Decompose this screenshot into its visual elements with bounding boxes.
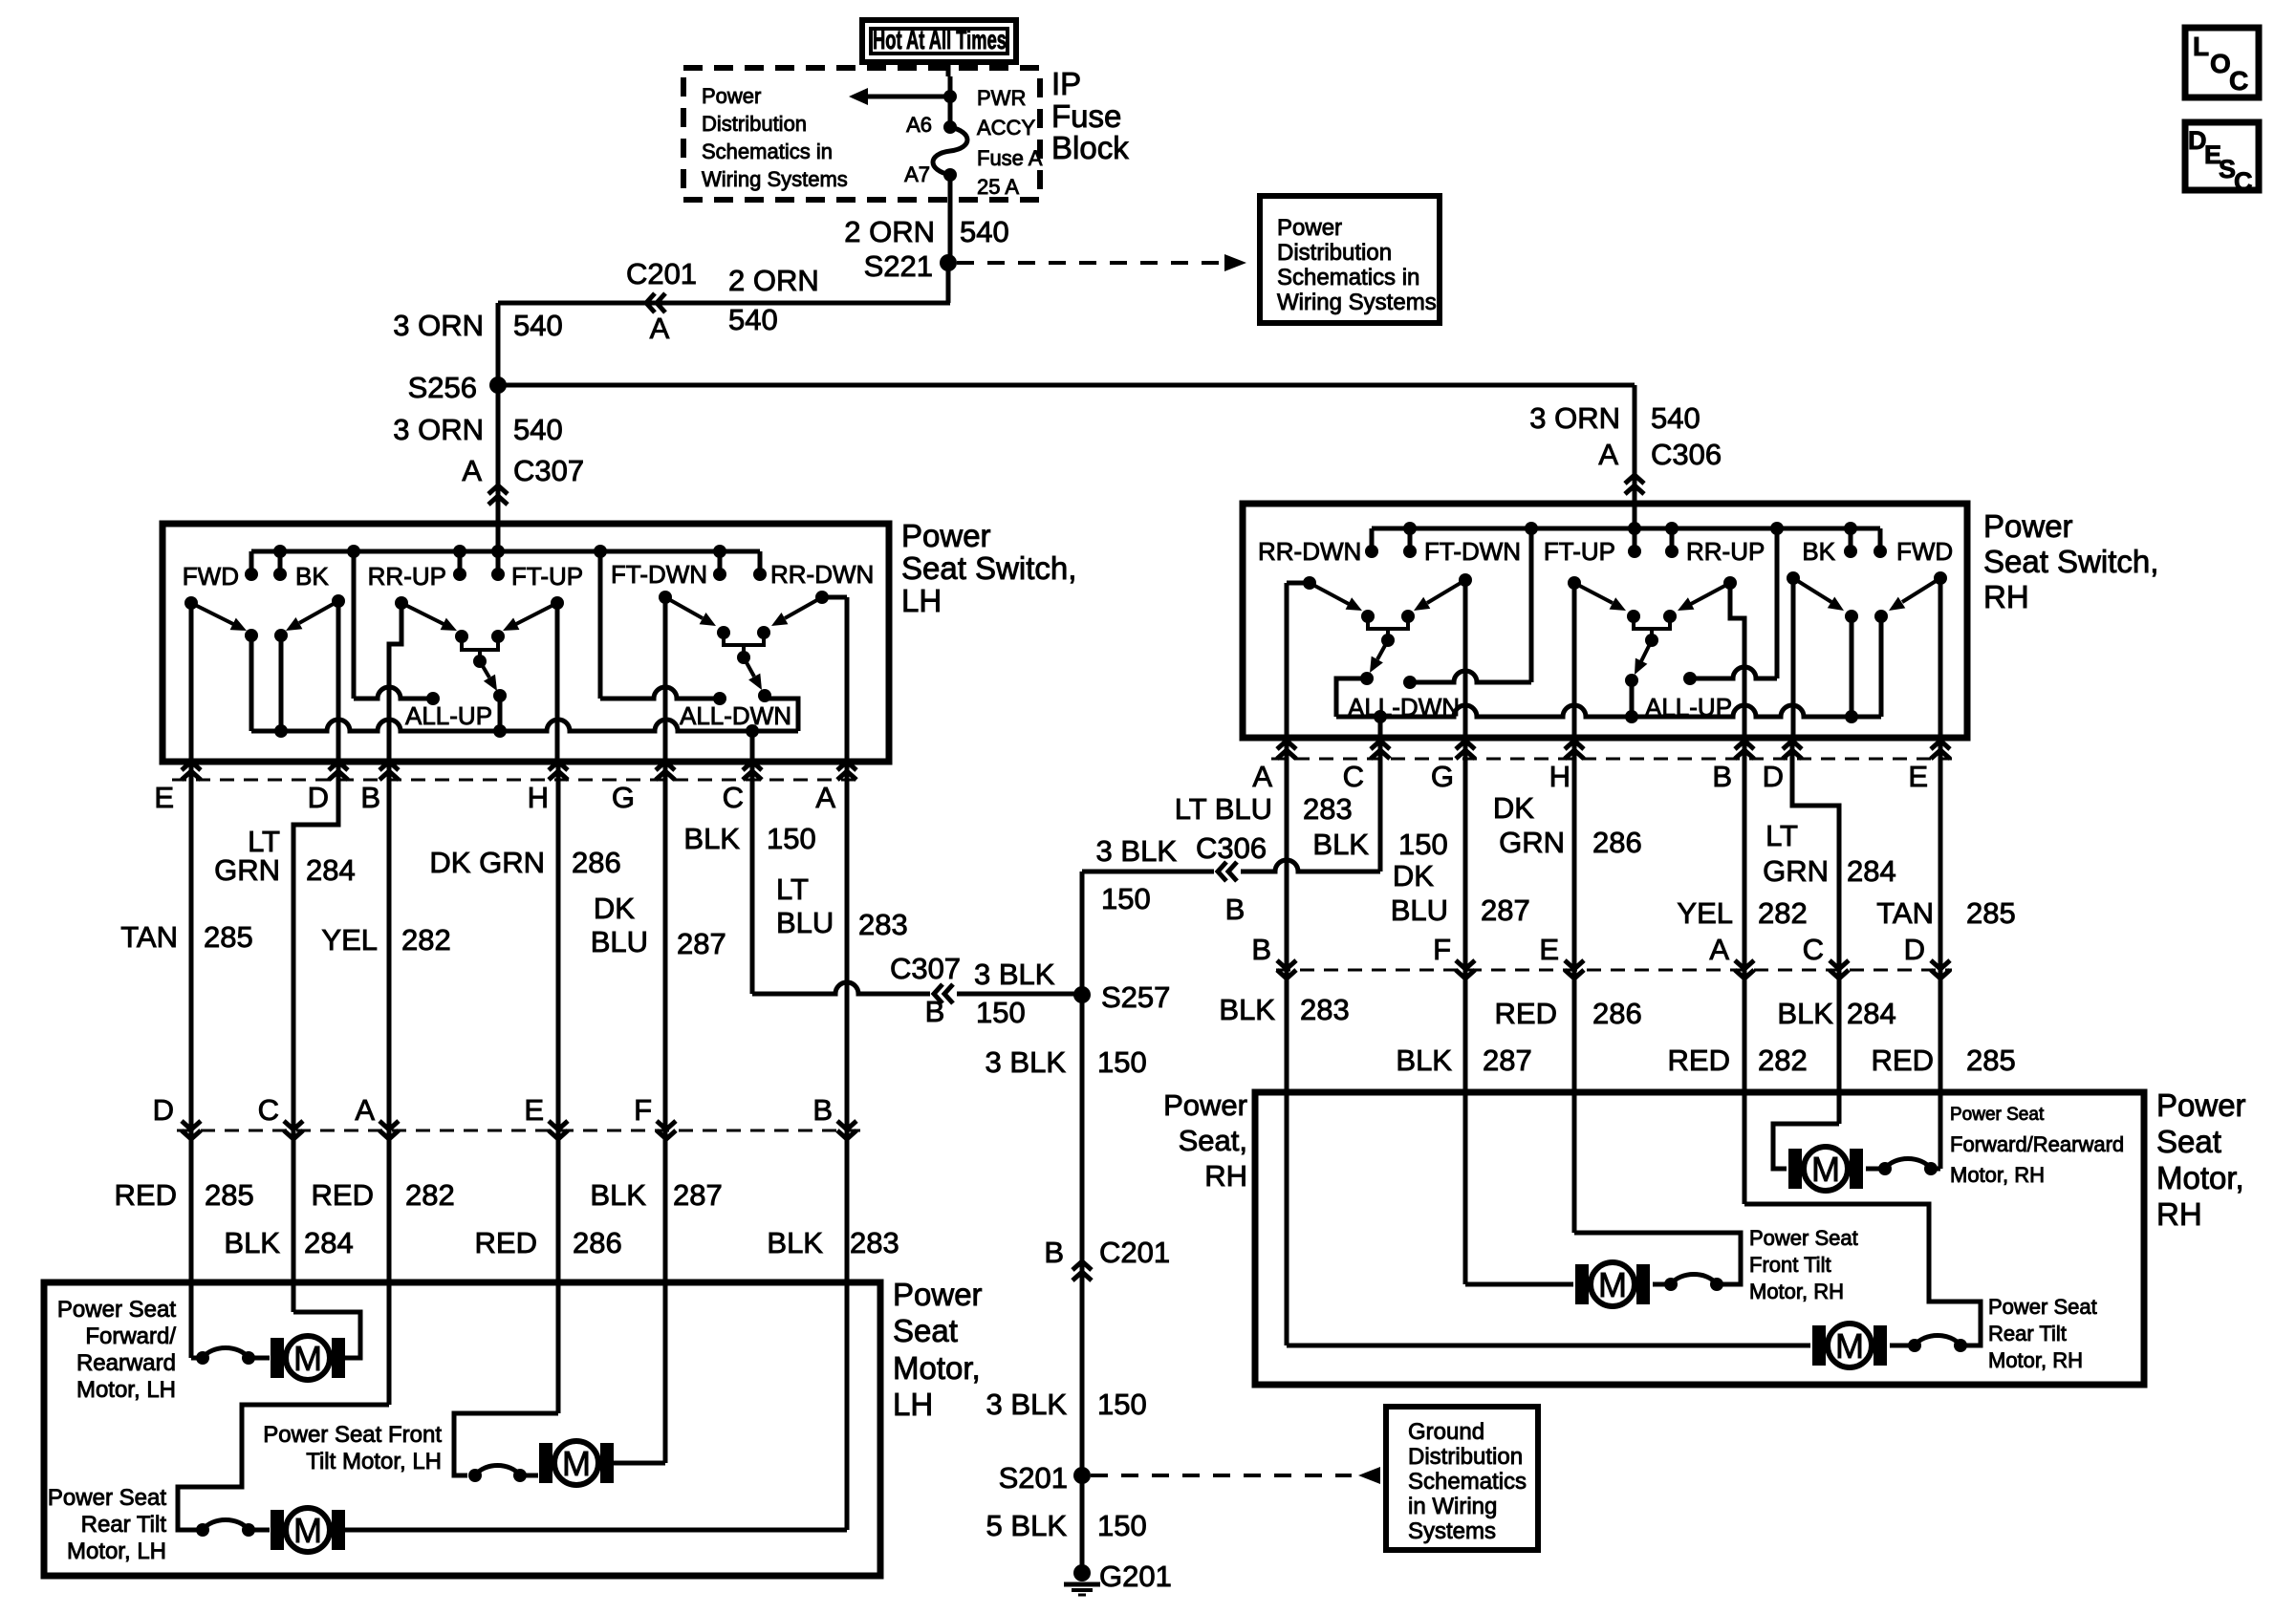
wire label BLK 287 [590,1178,722,1212]
svg-text:3 BLK: 3 BLK [1096,834,1178,868]
RH FT-DWN switch pole [1459,573,1472,738]
motor M6 brush contact [1908,1336,1967,1353]
svg-text:Power Seat: Power Seat [1950,1105,2045,1125]
wire C306 to RH switch pin C [1241,738,1380,872]
svg-text:540: 540 [513,413,563,446]
svg-text:BLU: BLU [591,925,648,958]
switch position label BK [295,562,329,591]
component box: Power Seat Switch RH [1243,504,1967,738]
RH motor connector chevrons at x=1346 [1277,960,1296,979]
svg-text:RED: RED [1872,1044,1934,1077]
svg-text:Wiring Systems: Wiring Systems [702,167,848,191]
svg-text:284: 284 [1847,854,1896,888]
svg-text:Power: Power [2156,1087,2246,1123]
power label box: Hot At All Times [862,20,1016,62]
svg-text:B: B [1251,933,1271,966]
LH ALL-DWN feed wire from bus [600,551,720,699]
wire RH pin H down (DK GRN 286) [1572,738,1577,1233]
svg-text:L: L [2193,32,2209,61]
wire M2 contact to motor [520,1474,538,1478]
RH RR-DWN switch arm arrow [1310,583,1362,611]
RH all-up contact bracket [1627,610,1677,638]
svg-text:Schematics: Schematics [1408,1469,1527,1495]
svg-text:Ground: Ground [1408,1419,1484,1445]
wire M4 contact to motor [1866,1167,1885,1172]
wire RH pin B down (YEL 282) [1743,738,1747,1204]
wire pin G down (DK BLU 287) [663,762,668,1463]
wire label 3 BLK 150 (C201-S201) [986,1388,1147,1421]
LH bus junction dots [273,545,726,558]
RH FT-UP switch pole [1568,576,1581,738]
label ALL-UP [405,701,492,730]
svg-text:150: 150 [1097,1388,1147,1421]
svg-text:C307: C307 [513,454,584,487]
motor M5 brush contact [1664,1275,1723,1292]
RH switch connector chevrons at x=1346 [1277,741,1296,759]
RH ALL-UP feed wire from bus [1690,528,1777,678]
svg-text:BLK: BLK [1219,993,1275,1026]
svg-text:Motor,: Motor, [893,1350,981,1386]
pin letter C [723,781,744,814]
RH motor connector chevrons at x=1825 [1735,960,1754,979]
LH rail junction dots [274,724,759,738]
svg-text:283: 283 [1303,792,1353,826]
svg-text:Power Seat: Power Seat [57,1297,176,1323]
svg-text:B: B [1225,893,1245,926]
LH BK switch pole [332,594,345,762]
svg-text:H: H [1549,760,1570,793]
svg-text:285: 285 [1966,1044,2016,1077]
pin letter C (RH) [1343,760,1364,793]
svg-text:RR-DWN: RR-DWN [770,560,874,589]
svg-text:287: 287 [1481,893,1530,927]
svg-text:Tilt Motor, LH: Tilt Motor, LH [306,1449,442,1474]
reference box: Power Distribution Schematics in Wiring Systems [1260,196,1440,323]
pin letter G [612,781,635,814]
LH all-up contact bracket [455,630,505,660]
wire from C201 corner down to S256 [496,303,501,385]
LH FWD fixed contact [245,629,258,731]
wire M5 left side from pin G/F [1465,1282,1573,1287]
wire M6 left side from pin A/B [1287,1344,1810,1348]
wire label 3 BLK 150 (S257-C306) [1096,834,1178,915]
component box: Power Seat Motor RH [1255,1092,2144,1385]
svg-text:D: D [1763,760,1784,793]
LH ALL-DWN arm arrow [744,657,762,690]
pin letter A (RH) [1252,760,1272,793]
wire from Hot At All Times box down to IP fuse block [946,62,951,76]
svg-text:Rear Tilt: Rear Tilt [81,1512,167,1538]
svg-text:BLK: BLK [1312,828,1369,861]
svg-text:286: 286 [1592,997,1642,1030]
svg-text:A: A [462,454,482,487]
pin letter C (motor row) [258,1093,279,1127]
LH FT-DWN switch pole [659,591,672,762]
svg-text:A6: A6 [906,113,932,137]
svg-text:B: B [1712,760,1732,793]
svg-text:Seat Switch,: Seat Switch, [901,550,1076,586]
LH FT-UP switch pole [551,596,564,762]
svg-text:LT BLU: LT BLU [1175,792,1272,826]
svg-text:Systems: Systems [1408,1518,1496,1544]
svg-text:287: 287 [677,927,726,960]
svg-text:DK: DK [1493,791,1534,825]
svg-text:3 ORN: 3 ORN [393,413,484,446]
svg-text:25 A: 25 A [977,175,1019,199]
LH ALL-UP arm end [493,689,507,731]
IP Fuse Block dashed box [683,68,1040,200]
RH ALL-DWN feed wire from bus [1410,528,1531,682]
svg-text:RH: RH [1983,579,2029,614]
wire M2 feed from pin H/E [454,1413,558,1475]
connector C201 (B) chevrons [1072,1261,1092,1280]
svg-text:Motor, LH: Motor, LH [76,1377,176,1403]
RH FT-DWN switch arm arrow [1414,580,1465,611]
component label: Power Seat Motor, RH (right) [2156,1087,2246,1232]
wire label RED 282 (RH) [1668,1044,1808,1077]
svg-text:Block: Block [1051,130,1129,165]
pin letter E (motor row) [524,1093,544,1127]
wire label BLK 150 [683,822,815,855]
svg-text:F: F [634,1093,652,1127]
svg-text:FT-UP: FT-UP [1544,537,1615,566]
svg-text:YEL: YEL [1677,896,1733,930]
svg-text:Schematics in: Schematics in [702,140,833,163]
RH bus terminal stubs [1372,528,1880,551]
motor M5 labels [1749,1226,1858,1303]
RH RR-UP switch pole [1723,576,1744,738]
pin letter A (RH motor row) [1709,933,1729,966]
svg-text:BLK: BLK [1777,997,1833,1030]
wire from S221 down and left to C201 [498,301,950,306]
pin letter H [528,781,549,814]
connector C306 labels [1196,831,1267,926]
fuse value label PWR ACCY Fuse A 25 A [977,86,1043,199]
connector C307 pin A label [462,454,584,487]
svg-text:Distribution: Distribution [1408,1444,1523,1470]
RH bus terminal dots [1365,545,1887,558]
LH RR-UP switch arm arrow [401,603,457,631]
svg-text:150: 150 [1097,1045,1147,1079]
svg-text:ALL-UP: ALL-UP [405,701,492,730]
wire RH pin G down (DK BLU 287) [1463,738,1468,1284]
reference box LOC [2185,28,2259,97]
svg-text:284: 284 [304,1226,354,1259]
pin letter A [815,781,835,814]
svg-text:284: 284 [1847,997,1896,1030]
LH RR-DWN switch arm arrow [771,597,822,626]
svg-text:B: B [925,995,945,1028]
svg-text:Hot At All Times: Hot At All Times [873,25,1007,54]
component label: Power Seat Switch, LH [901,518,1076,618]
wire label YEL 282 (RH) [1677,896,1807,930]
connector C306 pin A label [1598,438,1722,471]
svg-text:2 ORN: 2 ORN [728,264,819,297]
wire pin D jog down (LT GRN 284) [293,762,338,1312]
svg-text:A: A [1709,933,1729,966]
svg-text:G: G [612,781,635,814]
LH switch connector chevrons at x=407 [379,762,399,780]
wire M4 contact to pin D [1931,1167,1940,1172]
pin letter B [360,781,380,814]
svg-text:BLK: BLK [767,1226,823,1259]
svg-text:Seat: Seat [2156,1124,2221,1159]
motor M5: Power Seat Front Tilt Motor RH [1575,1262,1650,1306]
svg-text:3 ORN: 3 ORN [393,309,484,342]
label ALL-UP (RH) [1645,693,1732,721]
svg-text:Distribution: Distribution [702,112,807,136]
wire label DK GRN 286 (RH) [1493,791,1642,859]
wire label TAN 285 [120,920,252,954]
arrow to power distribution schematics (left) [849,88,950,105]
wire label 2 ORN 540 [844,215,1008,248]
RH switch connector chevrons at x=1647 [1565,741,1584,759]
component label: Power Seat Motor, LH [893,1277,983,1422]
wire M2 right side from pin G/F [614,1461,665,1466]
component label: Power Seat Switch, RH [1983,508,2158,614]
svg-text:286: 286 [1592,826,1642,859]
wire C307 to S257 [957,992,1082,997]
wire label BLK 283 [767,1226,899,1259]
svg-text:BLK: BLK [1396,1044,1452,1077]
reference box: Ground Distribution Schematics in Wiring Systems [1386,1407,1538,1550]
node S221 splice [864,249,957,283]
wire M3 right side to pin A/B [345,1528,847,1533]
svg-text:150: 150 [1097,1509,1147,1542]
RH motor connector chevrons at x=1647 [1565,960,1584,979]
wire fuse top lead [948,76,953,127]
LH ALL-DWN pivot [737,651,750,664]
pin letter D [308,781,329,814]
svg-text:3 BLK: 3 BLK [986,1388,1068,1421]
node: fuse terminal A7 [943,168,957,182]
pin letter D (RH motor row) [1904,933,1925,966]
svg-text:A7: A7 [904,162,930,186]
svg-text:G: G [1431,760,1454,793]
wire M3 feed from pin B/A [178,1405,389,1530]
pin letter A (motor row) [355,1093,375,1127]
LH all-dwn contact bracket [717,626,770,656]
wire label DK BLU 287 (RH) [1391,859,1530,927]
wire label 3 ORN 540 (below S256) [393,413,562,446]
LH RR-DWN switch pole [815,591,847,762]
svg-text:RR-DWN: RR-DWN [1258,537,1361,566]
wire M4 left side from pin C [1773,1124,1839,1169]
svg-text:RR-UP: RR-UP [1686,537,1765,566]
LH switch connector chevrons at x=354 [329,762,348,780]
wire label LT BLU 283 [776,872,908,941]
wire S257 up to C306 [1082,872,1214,995]
pin letter B (RH) [1712,760,1732,793]
svg-text:A: A [1598,438,1618,471]
RH FT-UP switch arm arrow [1574,583,1626,611]
component label: IP Fuse Block [1051,66,1129,165]
svg-text:RH: RH [1204,1159,1247,1193]
svg-text:Rear Tilt: Rear Tilt [1988,1322,2067,1345]
svg-text:F: F [1433,933,1451,966]
svg-text:RED: RED [475,1226,537,1259]
LH switch connector chevrons at x=696 [656,762,675,780]
node: junction dot on fuse feed [943,90,957,103]
LH BK fixed contact [274,629,288,731]
RH FWD switch pole [1934,571,1947,738]
connector C201 labels [1044,1236,1170,1269]
svg-text:Fuse: Fuse [1051,98,1121,134]
LH rail to pin C wire [750,731,755,762]
pin letter D (RH) [1763,760,1784,793]
LH motor connector chevrons at x=697 [657,1121,676,1139]
node S257 splice [1073,980,1170,1014]
wire label 3 ORN 540 (right branch) [1529,401,1700,435]
LH BK switch arm arrow [286,601,338,631]
svg-text:S257: S257 [1101,980,1170,1014]
svg-text:Power: Power [1277,215,1342,241]
LH ALL-UP pivot [473,655,487,668]
wire from S256 right to RH seat switch feed [498,383,1635,388]
motor M4 brush contact [1878,1159,1938,1176]
wire M6 feed from pin B/A [1744,1204,1981,1345]
svg-text:M: M [1811,1150,1840,1189]
RH ALL-UP arm end [1625,674,1638,717]
svg-text:RR-UP: RR-UP [368,562,446,591]
svg-text:BLK: BLK [683,822,740,855]
svg-text:540: 540 [728,303,778,336]
switch position label FT-DWN (RH) [1424,537,1521,566]
svg-text:150: 150 [767,822,816,855]
svg-text:283: 283 [858,908,908,941]
LH ALL-UP arm arrow [480,661,497,691]
svg-text:Motor, RH: Motor, RH [1950,1163,2045,1187]
svg-text:BLK: BLK [590,1178,646,1212]
svg-text:RED: RED [1668,1044,1730,1077]
svg-text:in Wiring: in Wiring [1408,1494,1497,1519]
svg-text:284: 284 [306,853,356,887]
svg-text:Power Seat Front: Power Seat Front [263,1422,442,1448]
svg-text:2 ORN: 2 ORN [844,215,935,248]
svg-text:Forward/Rearward: Forward/Rearward [1950,1132,2124,1156]
svg-text:O: O [2210,49,2231,78]
wire label BLK 284 [224,1226,353,1259]
svg-text:150: 150 [1101,882,1151,915]
svg-text:C201: C201 [1099,1236,1170,1269]
svg-text:C307: C307 [890,952,961,985]
svg-text:282: 282 [405,1178,455,1212]
svg-text:285: 285 [204,920,253,954]
wire label BLK 287 (RH) [1396,1044,1531,1077]
motor M6 labels [1988,1295,2097,1372]
svg-text:PWR: PWR [977,86,1026,110]
RH motor connector dashed row [1276,969,1952,972]
svg-text:DK: DK [1393,859,1434,893]
wire pin B down (YEL 282) [387,762,392,1405]
LH FWD switch pole [184,596,198,762]
switch position label FWD [183,562,239,591]
svg-text:DK GRN: DK GRN [429,846,545,879]
svg-text:B: B [812,1093,833,1127]
wire fuse output down to S221 [948,175,950,303]
wire from S256 down to LH seat switch [496,385,501,551]
node S256 splice [408,371,507,404]
svg-text:286: 286 [572,846,621,879]
svg-text:ALL-DWN: ALL-DWN [680,701,791,730]
LH motor connector dashed row [177,1130,860,1132]
connector C201 (A) on orange feed [626,257,697,345]
svg-text:Motor, RH: Motor, RH [1988,1348,2083,1372]
dashed wire S201 to ground distribution box [1091,1467,1380,1484]
wire RH pin D jog down (LT GRN 284) [1792,738,1839,1124]
svg-text:RED: RED [312,1178,374,1212]
svg-text:E: E [1539,933,1559,966]
svg-text:S221: S221 [864,249,933,283]
wire label LT BLU 283 (RH) [1175,792,1353,826]
svg-text:Motor,: Motor, [2156,1160,2244,1195]
switch position label FT-DWN [611,560,707,589]
svg-text:C306: C306 [1651,438,1722,471]
connector C306 chevrons (top) [1625,475,1644,494]
svg-text:285: 285 [205,1178,254,1212]
RH switch connector chevrons at x=1875 [1783,741,1802,759]
svg-text:287: 287 [1483,1044,1532,1077]
wire RH pin A down (LT BLU 283) [1285,738,1289,1345]
wire M5 feed from pin H/E [1574,1233,1741,1284]
svg-text:BLU: BLU [1391,893,1448,927]
svg-text:C306: C306 [1196,831,1267,865]
fuse PWR ACCY Fuse A 25A symbol [933,127,967,175]
svg-text:E: E [1908,760,1928,793]
RH switch common rail [1336,705,1881,717]
svg-text:282: 282 [1758,1044,1808,1077]
wire from S256 down to RH seat switch [1633,385,1637,529]
svg-text:D: D [1904,933,1925,966]
svg-text:C: C [1343,760,1364,793]
svg-text:A: A [1252,760,1272,793]
node: fuse terminal A6 [943,120,957,134]
pin letter E (RH) [1908,760,1928,793]
motor M2 brush contact [468,1466,527,1483]
pin letter B (motor row) [812,1093,833,1127]
svg-text:C: C [2229,66,2248,96]
RH rail to pin C wire [1378,717,1383,738]
svg-text:G201: G201 [1099,1560,1172,1593]
connector C307 chevrons [488,485,508,505]
RH ALL-DWN pivot [1381,634,1395,647]
RH FWD fixed contact [1874,610,1888,717]
svg-text:FWD: FWD [1896,537,1953,566]
wire label BLK 284 (RH) [1777,997,1895,1030]
wire RH pin E down (TAN 285) [1939,738,1943,1169]
LH switch common rail [251,720,798,731]
switch position label FT-UP (RH) [1544,537,1615,566]
wire label 2 ORN 540 (after C201) [728,264,819,336]
motor M3 brush contact [196,1520,255,1538]
svg-text:S201: S201 [999,1461,1068,1495]
svg-text:Power: Power [893,1277,983,1312]
svg-text:Power Seat: Power Seat [1988,1295,2097,1319]
wire label RED 285 (RH) [1872,1044,2016,1077]
svg-text:FT-DWN: FT-DWN [1424,537,1521,566]
pin letter H (RH) [1549,760,1570,793]
RH switch connector chevrons at x=1533 [1456,741,1475,759]
pin label A6 [906,113,932,137]
wire label BLK 283 (RH) [1219,993,1349,1026]
switch position label RR-DWN [770,560,874,589]
RH RR-DWN switch pole [1287,576,1316,738]
svg-text:C: C [723,781,744,814]
svg-text:TAN: TAN [1876,896,1934,930]
svg-text:LH: LH [901,583,942,618]
connector C307 labels [890,952,961,1028]
svg-text:FT-DWN: FT-DWN [611,560,707,589]
